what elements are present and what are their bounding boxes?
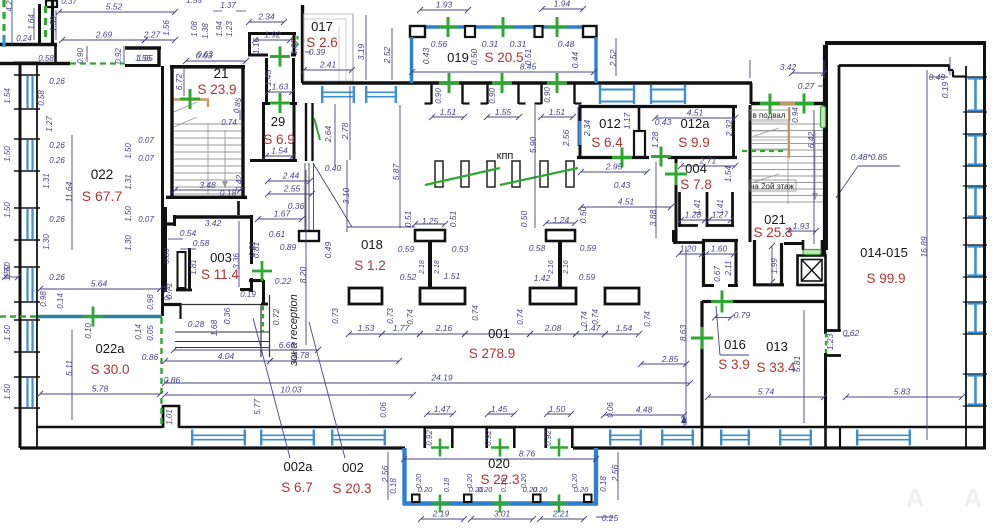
svg-text:1.50: 1.50 bbox=[3, 325, 12, 341]
svg-text:5.74: 5.74 bbox=[758, 387, 775, 397]
svg-text:1.47: 1.47 bbox=[434, 404, 451, 414]
svg-text:0.26: 0.26 bbox=[49, 273, 65, 282]
svg-text:0.81: 0.81 bbox=[251, 241, 261, 258]
svg-text:0.98: 0.98 bbox=[146, 294, 155, 310]
svg-text:1.50: 1.50 bbox=[3, 384, 12, 400]
svg-text:1.07: 1.07 bbox=[289, 38, 299, 55]
svg-text:1.50: 1.50 bbox=[549, 404, 566, 414]
svg-text:0.49: 0.49 bbox=[323, 241, 333, 258]
svg-text:2.44: 2.44 bbox=[282, 171, 300, 181]
svg-text:3.48: 3.48 bbox=[199, 180, 216, 190]
svg-text:1.50: 1.50 bbox=[3, 202, 12, 218]
svg-text:1.67: 1.67 bbox=[274, 209, 291, 219]
svg-text:1.94: 1.94 bbox=[215, 21, 224, 37]
svg-text:1.50: 1.50 bbox=[3, 265, 12, 281]
svg-text:0.90: 0.90 bbox=[76, 48, 85, 64]
svg-text:0.59: 0.59 bbox=[580, 243, 597, 253]
svg-text:0.20: 0.20 bbox=[418, 485, 433, 494]
svg-text:019: 019 bbox=[447, 50, 469, 65]
svg-text:1.37: 1.37 bbox=[220, 1, 236, 10]
svg-text:4.48: 4.48 bbox=[636, 405, 653, 415]
svg-text:0.26: 0.26 bbox=[49, 156, 65, 165]
svg-text:S 1.2: S 1.2 bbox=[354, 258, 386, 273]
svg-text:0.61: 0.61 bbox=[269, 229, 286, 239]
svg-text:0.48*0.85: 0.48*0.85 bbox=[851, 152, 888, 162]
svg-text:0.50: 0.50 bbox=[519, 210, 529, 227]
svg-text:0.05: 0.05 bbox=[146, 325, 155, 341]
svg-text:0.56: 0.56 bbox=[431, 39, 448, 49]
svg-text:0.58: 0.58 bbox=[37, 90, 46, 106]
svg-text:1.60: 1.60 bbox=[711, 244, 728, 254]
svg-text:0.54: 0.54 bbox=[180, 228, 197, 238]
svg-text:А: А bbox=[906, 483, 925, 513]
svg-text:5.78: 5.78 bbox=[92, 384, 109, 394]
svg-text:0.92: 0.92 bbox=[425, 430, 434, 446]
svg-text:1.31: 1.31 bbox=[124, 174, 133, 190]
svg-text:0.06: 0.06 bbox=[379, 402, 388, 418]
svg-text:0.50: 0.50 bbox=[469, 48, 479, 65]
svg-text:2.71: 2.71 bbox=[699, 156, 717, 166]
svg-text:1.68: 1.68 bbox=[209, 319, 219, 336]
svg-text:5.83: 5.83 bbox=[894, 387, 911, 397]
svg-text:0.86: 0.86 bbox=[142, 352, 159, 362]
svg-text:5.81: 5.81 bbox=[792, 355, 802, 372]
svg-text:1.63: 1.63 bbox=[272, 82, 289, 92]
svg-text:3.10: 3.10 bbox=[341, 187, 351, 204]
svg-text:3.19: 3.19 bbox=[356, 43, 366, 60]
svg-text:3.01: 3.01 bbox=[494, 509, 511, 519]
svg-text:0.58: 0.58 bbox=[193, 238, 210, 248]
svg-text:1.08: 1.08 bbox=[190, 21, 199, 37]
svg-text:0.89: 0.89 bbox=[280, 242, 297, 252]
svg-text:2.52: 2.52 bbox=[608, 49, 618, 67]
svg-text:1.41: 1.41 bbox=[693, 199, 702, 215]
svg-text:1.55: 1.55 bbox=[186, 0, 202, 5]
svg-text:0.74: 0.74 bbox=[516, 309, 525, 325]
svg-text:0.74: 0.74 bbox=[471, 305, 480, 321]
svg-text:1.56: 1.56 bbox=[162, 20, 171, 36]
svg-text:013: 013 bbox=[766, 339, 788, 354]
svg-text:1.59: 1.59 bbox=[49, 16, 58, 32]
svg-text:0.07: 0.07 bbox=[138, 215, 154, 224]
svg-text:016: 016 bbox=[724, 337, 746, 352]
svg-text:S 20.5: S 20.5 bbox=[484, 50, 523, 65]
svg-text:0.72: 0.72 bbox=[271, 308, 281, 325]
svg-text:0.39: 0.39 bbox=[309, 47, 326, 57]
svg-text:2.18: 2.18 bbox=[434, 260, 441, 275]
svg-text:0.98: 0.98 bbox=[39, 291, 48, 307]
svg-text:3.36: 3.36 bbox=[232, 253, 241, 269]
svg-text:1.20: 1.20 bbox=[680, 244, 697, 254]
svg-text:0.10: 0.10 bbox=[84, 323, 93, 339]
svg-text:0.51: 0.51 bbox=[448, 210, 458, 227]
svg-text:1.99: 1.99 bbox=[770, 258, 779, 274]
svg-text:2.78: 2.78 bbox=[340, 122, 350, 140]
svg-text:0.79: 0.79 bbox=[734, 310, 751, 320]
svg-text:2.16: 2.16 bbox=[548, 260, 555, 275]
svg-text:0.59: 0.59 bbox=[579, 272, 596, 282]
svg-text:1.51: 1.51 bbox=[444, 271, 461, 281]
svg-text:018: 018 bbox=[361, 237, 383, 252]
svg-text:0.74: 0.74 bbox=[221, 118, 237, 127]
svg-text:0.94: 0.94 bbox=[791, 107, 800, 123]
svg-text:0.20: 0.20 bbox=[574, 485, 589, 494]
svg-text:0.59: 0.59 bbox=[398, 244, 415, 254]
svg-text:1.45: 1.45 bbox=[491, 404, 508, 414]
svg-text:1.92: 1.92 bbox=[264, 30, 281, 40]
svg-text:S 30.0: S 30.0 bbox=[90, 362, 129, 377]
svg-text:0.19: 0.19 bbox=[940, 81, 950, 98]
svg-text:0.42: 0.42 bbox=[234, 174, 244, 191]
svg-text:0.58: 0.58 bbox=[529, 243, 546, 253]
svg-text:S 9.9: S 9.9 bbox=[678, 135, 710, 150]
svg-text:1.01: 1.01 bbox=[165, 409, 174, 425]
svg-text:2.55: 2.55 bbox=[283, 184, 301, 194]
svg-text:2.16: 2.16 bbox=[435, 323, 453, 333]
svg-text:8.76: 8.76 bbox=[519, 449, 536, 459]
svg-text:1.55: 1.55 bbox=[137, 54, 153, 63]
svg-text:1.54: 1.54 bbox=[616, 323, 633, 333]
svg-text:002a: 002a bbox=[284, 459, 314, 474]
svg-text:0.73: 0.73 bbox=[331, 308, 340, 324]
svg-text:1.30: 1.30 bbox=[124, 235, 133, 251]
svg-text:1.55: 1.55 bbox=[495, 107, 512, 117]
svg-text:11.64: 11.64 bbox=[64, 181, 74, 202]
svg-text:6.72: 6.72 bbox=[174, 73, 184, 90]
svg-text:1.54: 1.54 bbox=[3, 88, 12, 104]
svg-text:3.42: 3.42 bbox=[205, 218, 222, 228]
svg-text:0.74: 0.74 bbox=[580, 311, 589, 327]
svg-text:S 23.9: S 23.9 bbox=[197, 82, 236, 97]
svg-text:1.54: 1.54 bbox=[723, 165, 733, 182]
svg-text:S 3.9: S 3.9 bbox=[718, 357, 750, 372]
svg-text:S 6.4: S 6.4 bbox=[591, 135, 623, 150]
svg-text:16.89: 16.89 bbox=[919, 236, 929, 258]
svg-text:0.14: 0.14 bbox=[134, 324, 143, 340]
svg-text:5.77: 5.77 bbox=[253, 399, 262, 415]
svg-text:0.92: 0.92 bbox=[544, 430, 553, 446]
svg-text:0.48: 0.48 bbox=[558, 39, 575, 49]
svg-text:4.51: 4.51 bbox=[687, 108, 704, 118]
svg-text:2.56: 2.56 bbox=[561, 129, 571, 147]
svg-text:S 20.3: S 20.3 bbox=[332, 481, 371, 496]
svg-text:5.52: 5.52 bbox=[106, 2, 123, 12]
svg-text:0.31: 0.31 bbox=[482, 39, 499, 49]
svg-text:1.50: 1.50 bbox=[3, 146, 12, 162]
svg-text:1.23: 1.23 bbox=[825, 333, 835, 350]
svg-text:0.25: 0.25 bbox=[602, 513, 619, 523]
svg-text:0.73: 0.73 bbox=[386, 308, 395, 324]
svg-text:0.28: 0.28 bbox=[188, 319, 205, 329]
svg-text:0.50: 0.50 bbox=[578, 206, 588, 223]
svg-text:2.34: 2.34 bbox=[582, 119, 592, 137]
svg-text:0.62: 0.62 bbox=[843, 328, 860, 338]
svg-text:0.63: 0.63 bbox=[197, 50, 213, 59]
svg-text:А: А bbox=[964, 483, 983, 513]
svg-text:1.94: 1.94 bbox=[554, 0, 571, 9]
svg-text:022: 022 bbox=[91, 167, 114, 182]
svg-text:2.95: 2.95 bbox=[605, 162, 623, 172]
svg-text:2.56: 2.56 bbox=[610, 464, 620, 482]
svg-text:0.74: 0.74 bbox=[643, 311, 652, 327]
svg-text:2.08: 2.08 bbox=[544, 323, 562, 333]
svg-text:в подвал: в подвал bbox=[752, 111, 785, 120]
svg-text:3.78: 3.78 bbox=[293, 350, 310, 360]
svg-text:001: 001 bbox=[488, 326, 510, 341]
svg-text:1.24: 1.24 bbox=[553, 215, 570, 225]
svg-text:1.25: 1.25 bbox=[422, 216, 439, 226]
svg-text:1.30: 1.30 bbox=[42, 234, 51, 250]
svg-text:0.43: 0.43 bbox=[614, 180, 631, 190]
svg-text:4.04: 4.04 bbox=[218, 351, 235, 361]
svg-text:0.18: 0.18 bbox=[599, 476, 608, 492]
svg-text:0.74: 0.74 bbox=[406, 309, 415, 325]
svg-text:10.03: 10.03 bbox=[280, 385, 302, 395]
svg-text:0.24: 0.24 bbox=[16, 34, 32, 43]
svg-text:2.16: 2.16 bbox=[563, 260, 570, 275]
svg-text:020: 020 bbox=[488, 456, 510, 471]
svg-text:29: 29 bbox=[271, 114, 285, 129]
svg-text:2.18: 2.18 bbox=[419, 260, 426, 275]
svg-text:0.43: 0.43 bbox=[655, 117, 672, 127]
svg-text:3.42: 3.42 bbox=[780, 62, 797, 72]
svg-text:0.14: 0.14 bbox=[56, 293, 65, 309]
svg-text:2.69: 2.69 bbox=[95, 30, 113, 40]
svg-text:0.43: 0.43 bbox=[421, 47, 431, 64]
svg-text:0.36: 0.36 bbox=[222, 307, 232, 324]
svg-text:2.27: 2.27 bbox=[143, 30, 161, 40]
svg-text:4.51: 4.51 bbox=[618, 197, 635, 207]
svg-text:кпп: кпп bbox=[497, 150, 514, 162]
svg-text:0.71: 0.71 bbox=[164, 282, 174, 299]
svg-text:8.20: 8.20 bbox=[298, 266, 308, 283]
svg-text:1.54: 1.54 bbox=[271, 146, 288, 156]
svg-text:5.90: 5.90 bbox=[528, 136, 538, 153]
svg-text:S 99.9: S 99.9 bbox=[866, 271, 905, 286]
svg-text:S 278.9: S 278.9 bbox=[469, 346, 516, 361]
svg-text:4.2: 4.2 bbox=[5, 0, 14, 12]
svg-text:0.90: 0.90 bbox=[434, 88, 443, 104]
svg-text:3.88: 3.88 bbox=[648, 209, 658, 226]
svg-text:003: 003 bbox=[210, 250, 232, 265]
svg-text:0.07: 0.07 bbox=[138, 136, 154, 145]
svg-text:0.27: 0.27 bbox=[798, 81, 815, 91]
svg-text:0.90: 0.90 bbox=[543, 87, 552, 103]
svg-text:на 2ой этаж: на 2ой этаж bbox=[750, 182, 795, 191]
svg-text:0.92: 0.92 bbox=[484, 430, 493, 446]
svg-text:S 6.7: S 6.7 bbox=[281, 480, 313, 495]
svg-text:2.32: 2.32 bbox=[724, 119, 734, 137]
svg-text:6.65: 6.65 bbox=[279, 340, 296, 350]
svg-text:0.92: 0.92 bbox=[114, 48, 123, 64]
svg-text:0.20: 0.20 bbox=[533, 485, 548, 494]
svg-text:5.64: 5.64 bbox=[91, 279, 108, 289]
svg-text:21: 21 bbox=[213, 66, 228, 81]
svg-text:017: 017 bbox=[311, 19, 333, 34]
svg-text:2.64: 2.64 bbox=[323, 125, 333, 143]
svg-text:1.93: 1.93 bbox=[436, 0, 453, 10]
svg-text:6.42: 6.42 bbox=[806, 131, 816, 148]
svg-text:022a: 022a bbox=[96, 341, 126, 356]
svg-text:0.86: 0.86 bbox=[164, 375, 181, 385]
svg-text:24.19: 24.19 bbox=[430, 373, 453, 383]
svg-text:1.41: 1.41 bbox=[716, 199, 725, 215]
svg-text:1.17: 1.17 bbox=[622, 112, 632, 129]
svg-text:0.20: 0.20 bbox=[478, 485, 493, 494]
svg-text:0.52: 0.52 bbox=[400, 272, 417, 282]
svg-text:1.93: 1.93 bbox=[793, 221, 810, 231]
svg-text:0.40: 0.40 bbox=[325, 163, 342, 173]
svg-text:002: 002 bbox=[342, 460, 364, 475]
svg-text:0.44: 0.44 bbox=[570, 51, 580, 68]
svg-text:0.58: 0.58 bbox=[38, 54, 54, 63]
svg-text:1.51: 1.51 bbox=[549, 107, 566, 117]
svg-text:0.07: 0.07 bbox=[138, 154, 154, 163]
svg-text:1.53: 1.53 bbox=[358, 323, 375, 333]
svg-text:1.64: 1.64 bbox=[27, 14, 36, 30]
svg-text:2.19: 2.19 bbox=[432, 509, 450, 519]
svg-text:0.18: 0.18 bbox=[499, 477, 508, 492]
svg-text:0.74: 0.74 bbox=[591, 309, 600, 325]
svg-text:012: 012 bbox=[599, 116, 621, 131]
svg-text:1.28: 1.28 bbox=[650, 131, 660, 148]
svg-text:0.26: 0.26 bbox=[49, 215, 65, 224]
svg-text:0.53: 0.53 bbox=[452, 244, 469, 254]
svg-text:2.41: 2.41 bbox=[319, 60, 337, 70]
svg-text:1.51: 1.51 bbox=[440, 107, 457, 117]
svg-text:1.23: 1.23 bbox=[225, 21, 234, 37]
svg-text:S 33.4: S 33.4 bbox=[756, 360, 796, 375]
svg-text:5.11: 5.11 bbox=[64, 360, 74, 376]
svg-text:0.51: 0.51 bbox=[403, 210, 413, 227]
svg-text:0.22: 0.22 bbox=[275, 276, 292, 286]
svg-text:2.85: 2.85 bbox=[661, 354, 679, 364]
svg-text:0.26: 0.26 bbox=[49, 141, 65, 150]
svg-text:0.18: 0.18 bbox=[442, 477, 451, 492]
svg-text:2.52: 2.52 bbox=[382, 46, 392, 64]
svg-text:0.31: 0.31 bbox=[510, 39, 527, 49]
svg-text:2.21: 2.21 bbox=[552, 509, 570, 519]
svg-text:0.19: 0.19 bbox=[240, 290, 256, 299]
svg-text:5.87: 5.87 bbox=[391, 163, 401, 180]
svg-text:0.26: 0.26 bbox=[49, 77, 65, 86]
svg-text:1.50: 1.50 bbox=[124, 206, 133, 222]
svg-text:8.45: 8.45 bbox=[520, 62, 537, 72]
svg-text:2.11: 2.11 bbox=[724, 261, 733, 277]
svg-text:0.90: 0.90 bbox=[488, 88, 497, 104]
svg-text:1.50: 1.50 bbox=[124, 143, 133, 159]
svg-text:S 7.8: S 7.8 bbox=[680, 177, 712, 192]
svg-text:8.63: 8.63 bbox=[678, 324, 688, 341]
svg-text:0.67: 0.67 bbox=[713, 266, 722, 282]
svg-text:1.31: 1.31 bbox=[42, 173, 51, 189]
svg-text:1.38: 1.38 bbox=[201, 23, 210, 39]
svg-text:1.27: 1.27 bbox=[45, 116, 54, 132]
svg-text:2.34: 2.34 bbox=[257, 12, 275, 22]
svg-text:0.37: 0.37 bbox=[61, 0, 77, 6]
svg-text:1.81: 1.81 bbox=[189, 259, 198, 275]
svg-text:S 67.7: S 67.7 bbox=[82, 188, 123, 204]
svg-text:014-015: 014-015 bbox=[860, 245, 908, 260]
svg-text:0.18: 0.18 bbox=[389, 478, 398, 494]
